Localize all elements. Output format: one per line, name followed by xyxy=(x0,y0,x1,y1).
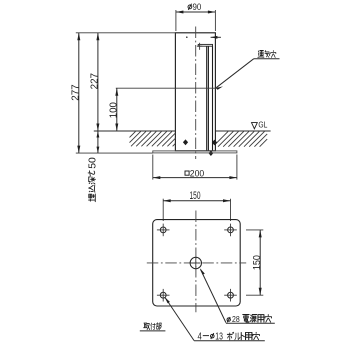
ground hatch right xyxy=(216,131,268,146)
bottom extension line xyxy=(76,152,153,154)
dimension 277 xyxy=(71,33,82,153)
pipe top small arrow xyxy=(211,36,221,39)
ground line right xyxy=(216,130,271,132)
dimension phi90 text xyxy=(188,2,201,13)
weld mark right xyxy=(212,140,217,146)
weld mark below plate xyxy=(209,150,214,156)
dimension 50 embed xyxy=(97,131,100,153)
vent pipe cap xyxy=(198,44,212,46)
leader to vent hole xyxy=(216,59,254,90)
plan vertical centerline xyxy=(195,211,197,313)
extension line at vent height xyxy=(116,87,218,89)
base plate side view xyxy=(153,151,237,153)
svg-text:200: 200 xyxy=(190,169,204,180)
svg-text:28: 28 xyxy=(232,314,240,324)
bolt hole top-right xyxy=(224,224,237,237)
post outline xyxy=(175,33,215,151)
ground line left with GL xyxy=(94,130,176,132)
label phi28 power-supply hole xyxy=(226,314,275,324)
bolt hole top-left xyxy=(157,224,170,237)
post centerline xyxy=(195,27,197,160)
svg-text:GL: GL xyxy=(258,119,267,129)
ground hatch left xyxy=(130,131,176,146)
dimension square200 xyxy=(153,155,237,180)
GL symbol xyxy=(252,119,268,129)
top extension line xyxy=(76,32,176,34)
svg-text:50: 50 xyxy=(88,157,99,169)
svg-text:150: 150 xyxy=(252,255,263,270)
center hole phi28 xyxy=(190,257,201,268)
label toritsukebu (mounting part) xyxy=(140,323,166,331)
plate outline plan xyxy=(153,220,241,306)
dimension 100 xyxy=(109,88,120,131)
svg-text:100: 100 xyxy=(109,102,120,118)
weld mark left xyxy=(183,139,188,145)
svg-text:227: 227 xyxy=(90,73,101,90)
pipe top left tick marks xyxy=(197,43,202,50)
dimension phi90 line xyxy=(176,10,216,31)
svg-text:90: 90 xyxy=(193,2,202,13)
bolt hole bottom-left xyxy=(157,289,170,302)
vent pipe walls xyxy=(207,46,213,151)
dimension 227 xyxy=(90,33,101,131)
leader 4-phi13 bolt holes xyxy=(165,297,194,341)
label umekomi-fukasa 50 (rotated) xyxy=(88,157,99,202)
bolt hole bottom-right xyxy=(224,289,237,302)
plan horizontal centerline xyxy=(147,262,246,264)
label 4-phi13 bolt holes xyxy=(194,332,265,343)
leader phi28 power hole xyxy=(200,268,226,322)
small dot on post xyxy=(186,36,188,38)
dimension 150 top xyxy=(163,190,230,221)
svg-text:150: 150 xyxy=(190,190,201,202)
label tsuukiketsu (vent hole) xyxy=(254,50,280,58)
dimension 150 right xyxy=(246,230,263,295)
svg-text:277: 277 xyxy=(71,84,82,101)
